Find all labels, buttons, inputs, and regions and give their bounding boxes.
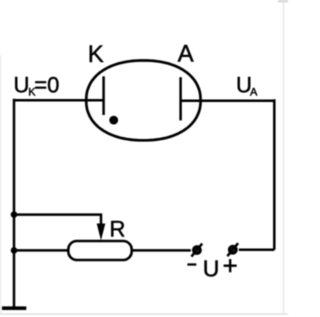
- svg-text:=0: =0: [34, 73, 59, 98]
- svg-text:K: K: [88, 41, 104, 68]
- svg-text:U: U: [203, 256, 220, 282]
- svg-text:A: A: [250, 86, 258, 98]
- svg-text:U: U: [14, 73, 30, 98]
- svg-text:A: A: [178, 41, 194, 68]
- svg-text:R: R: [110, 217, 126, 242]
